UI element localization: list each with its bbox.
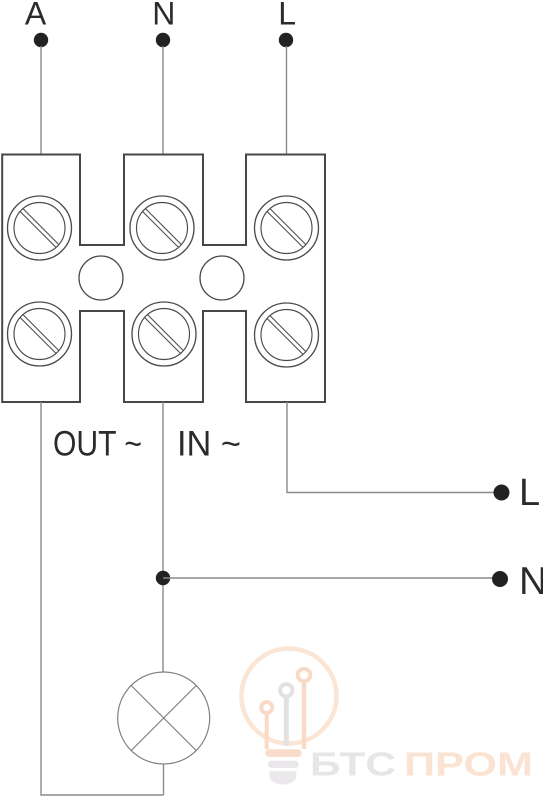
wire L: from right terminal to L node [287,402,501,493]
screw terminal bottom-left [8,302,72,366]
junction dot on neutral wire [156,571,170,585]
watermark logo [242,649,534,785]
bulb ring [242,649,337,744]
node N terminal dot [156,33,170,47]
svg-text:L: L [519,472,540,514]
wire from middle terminal down to lamp [162,402,164,672]
node A terminal dot [34,33,48,47]
mounting hole left [79,256,123,300]
terminal block TB1 outline [2,155,325,403]
right pin stem [302,682,307,750]
wire L to block [286,46,288,154]
left pin stem [265,713,269,749]
node N (right) dot [492,571,508,587]
wire N to block [162,46,164,154]
middle pin stem [284,697,289,747]
screw terminal top-right [255,196,319,260]
base bar gray [268,761,299,768]
screw terminal bottom-right [255,303,319,367]
svg-text:IN ~: IN ~ [177,425,241,464]
wire A to block [40,46,42,154]
wire from OUT terminal down (left return) [41,402,164,795]
mounting hole right [200,256,244,300]
svg-text:ПРОМ: ПРОМ [404,747,533,784]
middle pin circle [280,684,292,696]
node L (right) dot [494,485,510,501]
screw terminal top-left [8,196,72,260]
svg-text:БТС: БТС [310,747,396,784]
screw terminal bottom-middle [132,302,196,366]
node L terminal dot [279,33,293,47]
wire N horizontal to N node [163,577,500,579]
lamp E1 [118,672,210,764]
svg-text:N: N [152,0,175,32]
svg-text:L: L [278,0,296,32]
svg-text:A: A [25,0,47,32]
right pin circle [298,669,311,682]
base dome [270,771,297,784]
wire lamp bottom [163,764,165,795]
left pin circle [261,702,272,713]
base bar peach [265,749,301,757]
svg-text:N: N [519,560,543,603]
screw terminal top-middle [130,196,194,260]
svg-text:OUT ~: OUT ~ [53,425,142,464]
